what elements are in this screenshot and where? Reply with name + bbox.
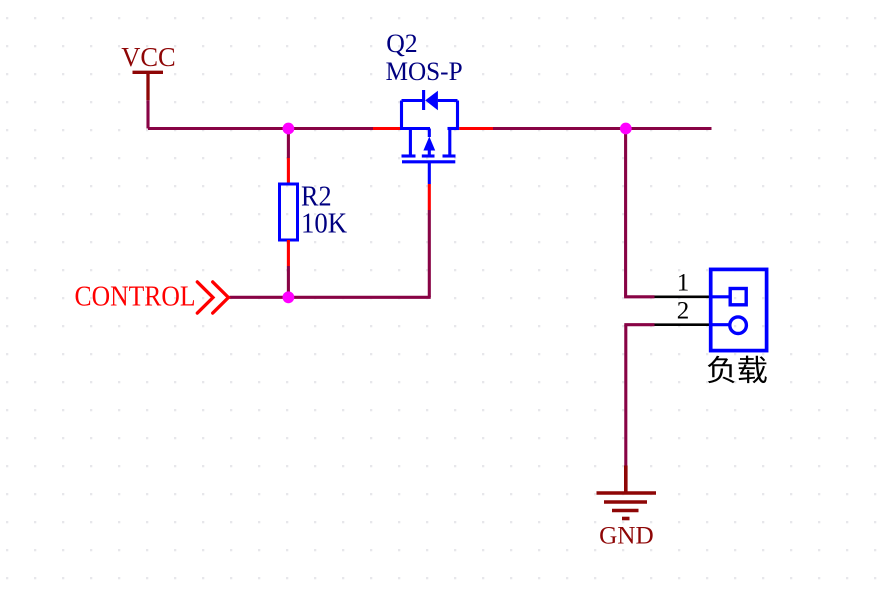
body arrow stem to bar (428, 150, 431, 156)
body diode loop top left segment (402, 99, 424, 102)
svg-text:1: 1 (677, 270, 690, 297)
wire rail left segment (148, 127, 373, 130)
wire elbow to pin 1 (624, 295, 654, 298)
svg-text:GND: GND (599, 521, 654, 550)
pin D blue stub right (448, 127, 460, 130)
svg-text:2: 2 (677, 298, 690, 325)
wire gate down to control net (428, 210, 431, 297)
connector pin 1 (black) (655, 295, 710, 298)
body arrow (filled, pointing up) (423, 137, 435, 151)
channel bar left (402, 154, 416, 157)
gate plate (402, 160, 455, 163)
wire junction2 down to pin 1 (624, 129, 627, 297)
port CONTROL chevrons (197, 282, 228, 313)
body diode loop top right segment (438, 99, 458, 102)
pin S blue stub left (400, 127, 430, 130)
resistor R2 body (280, 184, 298, 240)
ground symbol GND (597, 466, 657, 519)
connector pin 2 (black) (655, 323, 710, 326)
channel left contact drop (409, 129, 412, 155)
svg-text:VCC: VCC (121, 42, 176, 72)
wire VCC stem to rail (146, 100, 149, 128)
gate lead blue (428, 162, 431, 184)
junction node rail/R2 (283, 123, 295, 135)
wire control horizontal (230, 296, 431, 299)
body diode loop left vertical (400, 101, 403, 129)
connector pin2 internal lead (711, 323, 730, 326)
wire rail to R2 pin (287, 129, 290, 159)
connector label 负载 (drawn glyphs) (708, 356, 767, 384)
body arrow stem from rail (428, 129, 431, 138)
wire R2 to control node (287, 266, 290, 297)
power port VCC (133, 72, 164, 100)
connector J? body (711, 269, 767, 350)
svg-text:CONTROL: CONTROL (75, 281, 196, 312)
junction node control/R2 (283, 291, 295, 303)
wire pin2 down to GND (624, 325, 627, 466)
resistor R2 pin 1 (red) (287, 158, 290, 184)
svg-text:MOS-P: MOS-P (386, 56, 463, 86)
body diode triangle (425, 91, 438, 111)
junction node rail/load branch (620, 123, 632, 135)
channel bar middle (422, 154, 435, 157)
channel right contact drop (448, 129, 451, 155)
transistor Q2 pin D (red, right) (459, 127, 493, 130)
transistor Q2 MOS-P body (400, 90, 459, 184)
resistor R2 pin 2 (red) (287, 240, 290, 266)
transistor Q2 pin S (red, left) (373, 127, 400, 130)
svg-text:10K: 10K (301, 208, 347, 239)
svg-text:Q2: Q2 (386, 28, 418, 58)
transistor Q2 pin G (red, bottom) (428, 184, 431, 210)
wire rail right segment (493, 127, 712, 130)
connector pin1 square pad (730, 289, 746, 305)
connector pin2 round pad (730, 317, 747, 334)
wire elbow from pin 2 (624, 323, 654, 326)
connector pin1 internal lead (711, 295, 731, 298)
channel bar right (443, 154, 456, 157)
body diode cathode bar (422, 90, 425, 110)
body diode loop right vertical (456, 101, 459, 129)
